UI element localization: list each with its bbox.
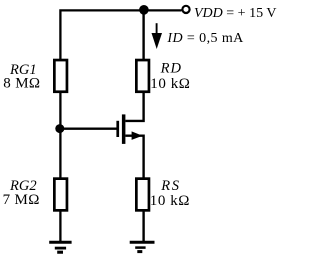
label RG1 (9, 62, 37, 78)
svg-text:VDD = + 15 V: VDD = + 15 V (194, 6, 276, 21)
svg-text:RS: RS (160, 178, 180, 194)
node top junction (139, 5, 149, 15)
wire left branch: top rail corner, down to ground (60, 10, 181, 241)
label RS (160, 178, 180, 194)
svg-text:10 kΩ: 10 kΩ (150, 193, 190, 209)
ground right (130, 242, 155, 251)
resistor RD (136, 60, 149, 92)
svg-text:8 MΩ: 8 MΩ (3, 76, 40, 92)
svg-text:10 kΩ: 10 kΩ (150, 76, 190, 92)
svg-text:RD: RD (160, 61, 182, 77)
label 10 kohm (RD) (150, 76, 190, 92)
wire drain branch: top rail through RD to drain lead (125, 9, 143, 121)
label ID = 0,5 mA (166, 31, 244, 46)
resistor RG1 (54, 60, 67, 92)
label 7 Mohm (3, 192, 40, 208)
svg-text:ID = 0,5 mA: ID = 0,5 mA (166, 31, 244, 46)
node gate junction (55, 124, 64, 133)
label 10 kohm (RS) (150, 193, 190, 209)
wire source branch: source lead through RS to ground (125, 136, 143, 242)
label RG2 (9, 178, 37, 194)
wire gate horizontal (60, 128, 116, 130)
label VDD = + 15 V (194, 6, 276, 21)
resistor RG2 (54, 179, 67, 211)
transistor Q1 NMOS (116, 114, 142, 143)
source arrow (132, 131, 143, 140)
channel bar (122, 114, 126, 143)
ground left (49, 242, 71, 252)
svg-text:7 MΩ: 7 MΩ (3, 192, 40, 208)
gate bar (116, 121, 119, 137)
terminal VDD (182, 6, 189, 13)
current arrow ID (152, 23, 163, 49)
resistor RS (136, 179, 149, 211)
label 8 Mohm (3, 76, 40, 92)
label RD (160, 61, 182, 77)
